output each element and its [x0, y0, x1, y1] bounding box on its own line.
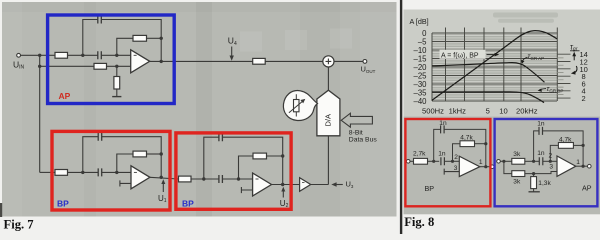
wire top loop right down	[444, 129, 486, 143]
capacitor 1n top (Fig8 AP)	[539, 127, 543, 135]
tau axis major ticks	[557, 54, 571, 98]
wire feedback branch up	[117, 38, 133, 55]
label background A=f(w),BP	[440, 50, 486, 59]
node V1	[81, 54, 84, 57]
D/A block	[317, 90, 340, 136]
wire to fb node (BP2)	[267, 155, 283, 157]
svg-text:5: 5	[486, 107, 490, 116]
wire to fb node (BP1)	[147, 153, 162, 155]
Fig8 circuit zone panel	[404, 117, 600, 215]
svg-text:1,3k: 1,3k	[538, 180, 551, 187]
ghost bleed-through rects	[240, 29, 352, 52]
wire BP top loop	[434, 129, 441, 161]
BP box Fig8 (red)	[405, 119, 490, 206]
wire to R3	[116, 66, 118, 76]
svg-text:1: 1	[576, 159, 580, 166]
wire fb down to output	[485, 144, 487, 167]
node AP-c	[549, 160, 552, 163]
tau axis up arrow	[573, 55, 575, 61]
wire input to node A	[21, 54, 40, 56]
resistor 4,7k (Fig8 AP)	[558, 143, 573, 149]
svg-text:2: 2	[582, 94, 586, 103]
wire vertical input bus down to BP1	[39, 55, 41, 172]
wire BP2 top loop	[204, 137, 219, 179]
node BP-fb	[484, 142, 487, 145]
curve tau_gr AP	[432, 63, 545, 83]
node BP output	[484, 165, 487, 168]
svg-text:1n: 1n	[537, 150, 545, 157]
wire AP in	[500, 160, 512, 162]
svg-text:4,7k: 4,7k	[460, 134, 473, 141]
separator line	[400, 0, 402, 234]
BP2: resistor R6 (input)	[179, 176, 192, 182]
svg-text:BP: BP	[57, 199, 69, 209]
node V2	[115, 54, 118, 57]
wire D/A output down	[327, 136, 329, 185]
capacitor C_mid (BP1)	[98, 168, 102, 176]
curve tau_gr BP	[432, 92, 544, 103]
tau axis labels	[580, 50, 588, 103]
svg-text:A [dB]: A [dB]	[410, 17, 429, 26]
node B	[38, 65, 41, 68]
BP box 2 (red)	[176, 133, 291, 209]
svg-text:BP: BP	[182, 199, 194, 209]
terminal BP output	[490, 165, 494, 169]
svg-text:3k: 3k	[513, 178, 521, 185]
capacitor 1n top (Fig8 BP)	[441, 125, 445, 133]
8-bit data bus arrow	[341, 113, 372, 127]
svg-text:–40: –40	[413, 97, 427, 106]
wire to R 2,7k	[410, 160, 414, 162]
svg-text:1kHz: 1kHz	[449, 107, 467, 116]
AP box (blue)	[48, 15, 175, 104]
resistor 2,7k	[414, 158, 428, 164]
wire cap to op-amp (Fig8 AP)	[543, 160, 557, 162]
wire R_fb to node	[147, 37, 162, 39]
node X2	[237, 177, 240, 180]
wire AP lower branch down	[504, 161, 512, 173]
wire top loop up	[83, 20, 98, 56]
wire AP top loop	[534, 131, 539, 161]
terminal Uout	[363, 60, 367, 64]
node fb (AP)	[160, 37, 163, 40]
svg-text:2: 2	[454, 154, 458, 161]
wire lower branch to op-amp pin3	[525, 172, 557, 174]
wire fb down to output (BP1)	[160, 154, 162, 177]
resistor R_fb (BP2)	[253, 153, 267, 159]
wire to fb node (Fig8 AP)	[573, 144, 583, 146]
BP1: wire bus to R5	[40, 171, 55, 173]
wire BP2 feedback branch	[239, 156, 254, 179]
wire R1 to cap C1	[68, 54, 98, 56]
potentiometer symbol	[295, 94, 297, 116]
op-amp U3 (BP2)	[253, 173, 272, 196]
ground (Fig8 AP)	[529, 191, 540, 193]
node AP-a	[502, 160, 505, 163]
op-amp U1 (AP)	[131, 50, 150, 73]
capacitor 1n mid (Fig8 AP)	[539, 157, 543, 165]
wire C_mid to op-amp (BP1)	[102, 171, 131, 173]
wire BP feedback branch	[453, 144, 461, 162]
svg-text:2,7k: 2,7k	[413, 150, 426, 157]
terminal AP input	[497, 160, 501, 164]
resistor R_fb (BP1)	[133, 151, 147, 157]
wire BP1 feedback branch	[117, 154, 133, 172]
resistor R3 (to ground)	[114, 77, 120, 90]
scan banding	[2, 2, 397, 217]
wire R4 to summer	[265, 60, 323, 62]
svg-text:3: 3	[454, 165, 458, 172]
node AP output	[582, 165, 585, 168]
svg-text:3: 3	[549, 164, 553, 171]
node AP output	[160, 60, 163, 63]
output terminal (Fig8 AP)	[588, 164, 592, 168]
node fb (BP2)	[281, 154, 284, 157]
wire R2 to op-amp	[107, 65, 131, 67]
resistor R2 (AP lower)	[94, 63, 107, 69]
wire AP lower input	[40, 65, 94, 67]
wire to 1,3k	[533, 174, 535, 177]
op-amp (Fig8 BP)	[459, 156, 480, 176]
wire BP1 top loop right	[102, 137, 162, 154]
ground (AP)	[112, 96, 121, 98]
wire AP upper input	[40, 54, 55, 56]
wire R6 to cap	[191, 178, 219, 180]
wire fb down to output (Fig8 AP)	[582, 145, 584, 166]
chart major gridlines (5 dB)	[432, 33, 557, 101]
y axis labels	[413, 29, 427, 106]
svg-text:3k: 3k	[513, 151, 521, 158]
wire BP out	[480, 166, 491, 168]
buffer op-amp	[300, 178, 311, 192]
U3 annotation arrow	[336, 184, 343, 186]
leader arrow tau BP	[540, 89, 547, 90]
wire 1,3k to ground	[533, 189, 535, 192]
node BP2 output	[281, 183, 284, 186]
chart vertical gridlines	[432, 28, 557, 102]
node V3	[115, 65, 118, 68]
svg-text:1n: 1n	[438, 150, 446, 157]
chart minor gridlines (1 dB)	[432, 35, 557, 100]
wire BP2 top loop right	[222, 137, 282, 156]
wire R3 to ground	[116, 89, 118, 97]
node fb (BP1)	[160, 152, 163, 155]
wire C_mid to op-amp (BP2)	[222, 178, 252, 180]
node AP-fb	[582, 144, 585, 147]
tau axis hook arrow	[575, 66, 577, 73]
node AP-d	[532, 172, 535, 175]
input terminal (Fig8 BP)	[406, 160, 410, 164]
ground tick (Fig8 BP pin3)	[444, 169, 459, 175]
svg-text:Fig. 7: Fig. 7	[4, 218, 34, 232]
capacitor C_mid (BP2)	[219, 175, 223, 183]
op-amp U2 (BP1)	[131, 166, 150, 189]
resistor 4,7k (Fig8 BP)	[460, 141, 475, 147]
svg-text:A = f(ω), BP: A = f(ω), BP	[441, 52, 479, 59]
Fig7 gray panel	[2, 2, 397, 217]
node BP1 output	[160, 176, 163, 179]
svg-text:D/A: D/A	[324, 114, 333, 127]
ghost bleed text rows	[493, 13, 558, 23]
summing junction	[323, 56, 334, 67]
AP box Fig8 (blue)	[495, 119, 598, 206]
ground tick (BP1 + input)	[120, 180, 131, 186]
U2 arrow	[282, 189, 284, 198]
wire R to cap (Fig8 AP)	[525, 160, 539, 162]
svg-text:BP: BP	[425, 184, 435, 193]
wire AP top loop right down	[543, 131, 584, 146]
op-amp (Fig8 AP)	[557, 156, 576, 176]
capacitor C_top (BP1)	[98, 133, 102, 141]
svg-text:8-Bit: 8-Bit	[349, 129, 363, 136]
wire top loop right and down	[101, 20, 161, 39]
resistor R5 (BP1 input)	[55, 170, 68, 176]
resistor R4 (main line)	[253, 58, 266, 64]
wire R to cap	[428, 160, 440, 162]
svg-text:1n: 1n	[439, 120, 447, 127]
Fig8 chart zone panel	[404, 10, 600, 117]
capacitor C_top (BP2)	[219, 133, 223, 141]
input terminal Uin	[17, 53, 21, 57]
svg-text:Fig. 8: Fig. 8	[404, 215, 434, 229]
SCHEMATIC_FIG7	[17, 16, 373, 198]
node BP-a	[432, 160, 435, 163]
svg-text:Data Bus: Data Bus	[349, 137, 378, 144]
node AP-b	[532, 160, 535, 163]
BOXES_FIG7	[48, 15, 291, 210]
node W2	[115, 171, 118, 174]
CHART_FIG8	[432, 13, 571, 103]
svg-text:1n: 1n	[537, 121, 545, 128]
scan edge mark left	[0, 203, 2, 217]
wire C_mid to op-amp	[101, 54, 130, 56]
resistor R1 (AP input)	[55, 52, 68, 58]
wire summer down to D/A	[327, 67, 329, 90]
curve A=f(w) BP magnitude	[432, 31, 557, 101]
node W1	[81, 171, 84, 174]
wire AP output	[576, 165, 588, 167]
wire cap to op-amp	[444, 160, 459, 162]
balloon with potentiometer	[283, 91, 317, 121]
U4 arrow	[231, 47, 233, 57]
node A	[38, 54, 41, 57]
ground tick (BP2 + input)	[241, 187, 252, 193]
capacitor 1n mid (Fig8 BP)	[441, 157, 445, 165]
wire R5 to cap	[68, 171, 99, 173]
resistor 3k upper (Fig8 AP)	[512, 158, 525, 164]
wire fb node down to output	[160, 38, 162, 61]
leader arrow tau AP	[522, 57, 527, 61]
wire to fb node	[475, 143, 486, 145]
wire BP1 out to BP2	[150, 177, 179, 179]
BP box 1 (red)	[52, 131, 170, 210]
node BP-b	[451, 160, 454, 163]
wire buffer out to D/A line	[311, 184, 329, 186]
wire fb down to output (BP2)	[282, 156, 284, 185]
U1 arrow	[162, 182, 164, 192]
resistor R_fb (AP)	[133, 35, 147, 41]
svg-text:2: 2	[549, 153, 553, 160]
svg-text:AP: AP	[582, 184, 592, 193]
wire AP output main line	[150, 60, 253, 62]
leader arrow A=f(w)	[487, 54, 497, 56]
svg-text:AP: AP	[59, 91, 71, 101]
svg-text:4,7k: 4,7k	[559, 137, 572, 144]
wire AP feedback branch	[550, 145, 558, 161]
capacitor C_mid (AP)	[98, 51, 102, 59]
node X1	[202, 177, 205, 180]
CIRCUITS_FIG8	[406, 125, 591, 191]
svg-text:1: 1	[479, 159, 483, 166]
labels Fig7	[13, 36, 377, 210]
wire BP2 out to buffer	[272, 184, 300, 186]
wire summer to Uout	[334, 60, 363, 62]
wire BP1 top loop	[83, 137, 98, 173]
resistor 1,3k (Fig8 AP)	[531, 177, 537, 189]
resistor 3k lower (Fig8 AP)	[512, 171, 525, 177]
svg-text:20kHz: 20kHz	[516, 107, 538, 116]
tau axis minor ticks	[557, 58, 564, 95]
svg-text:500Hz: 500Hz	[422, 107, 444, 116]
x axis labels	[422, 107, 538, 116]
svg-text:10: 10	[499, 107, 507, 116]
capacitor C_top (AP)	[98, 16, 102, 24]
